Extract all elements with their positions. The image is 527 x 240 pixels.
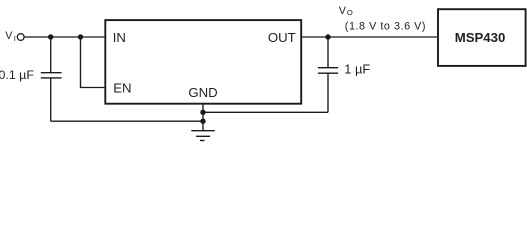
svg-text:IN: IN [113, 30, 126, 45]
ground symbol [191, 131, 214, 141]
junction rail2 [200, 119, 205, 124]
svg-text:(1.8 V to 3.6 V): (1.8 V to 3.6 V) [345, 20, 426, 32]
junction rail1 [200, 110, 205, 115]
svg-text:OUT: OUT [268, 30, 296, 45]
MSP430 box [438, 9, 526, 66]
capacitor C2 1uF [318, 37, 338, 112]
node VI label [5, 30, 16, 43]
node VO label [339, 5, 353, 17]
wire GND stem [202, 104, 204, 131]
capacitor C1 0.1uF [41, 37, 62, 121]
svg-text:EN: EN [113, 80, 131, 95]
wire EN [81, 37, 105, 88]
svg-text:MSP430: MSP430 [455, 30, 506, 45]
input terminal [17, 34, 24, 41]
wire OUT to MSP430 [302, 36, 437, 38]
regulator U1 box [105, 20, 301, 104]
junction at C1 [48, 34, 53, 39]
svg-text:I: I [14, 34, 16, 43]
svg-text:GND: GND [188, 85, 217, 100]
wire rail GND to C2 [203, 111, 328, 113]
svg-text:V: V [339, 5, 347, 17]
svg-text:O: O [347, 8, 353, 17]
svg-text:1 µF: 1 µF [344, 62, 370, 77]
svg-text:0.1 µF: 0.1 µF [0, 68, 34, 82]
junction at C2 [325, 34, 330, 39]
junction at EN [78, 34, 83, 39]
svg-text:V: V [5, 30, 13, 42]
wire rail C1 to GND [51, 120, 203, 122]
wire input to IN pin [24, 36, 104, 38]
